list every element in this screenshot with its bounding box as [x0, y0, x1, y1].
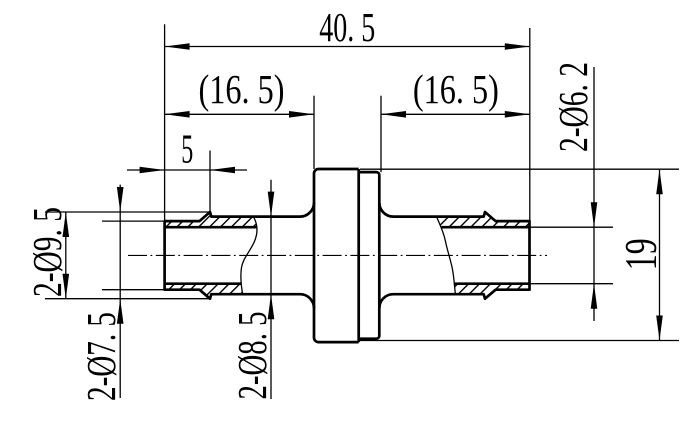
svg-text:(16. 5): (16. 5): [413, 66, 499, 112]
svg-text:2-Ø9. 5: 2-Ø9. 5: [24, 207, 70, 297]
svg-text:40. 5: 40. 5: [319, 4, 375, 50]
svg-text:2-Ø7. 5: 2-Ø7. 5: [78, 312, 124, 401]
svg-text:5: 5: [181, 125, 193, 171]
svg-text:2-Ø8. 5: 2-Ø8. 5: [229, 312, 275, 400]
svg-text:19: 19: [616, 238, 666, 270]
svg-text:(16. 5): (16. 5): [199, 66, 285, 112]
svg-text:2-Ø6. 2: 2-Ø6. 2: [550, 62, 596, 152]
